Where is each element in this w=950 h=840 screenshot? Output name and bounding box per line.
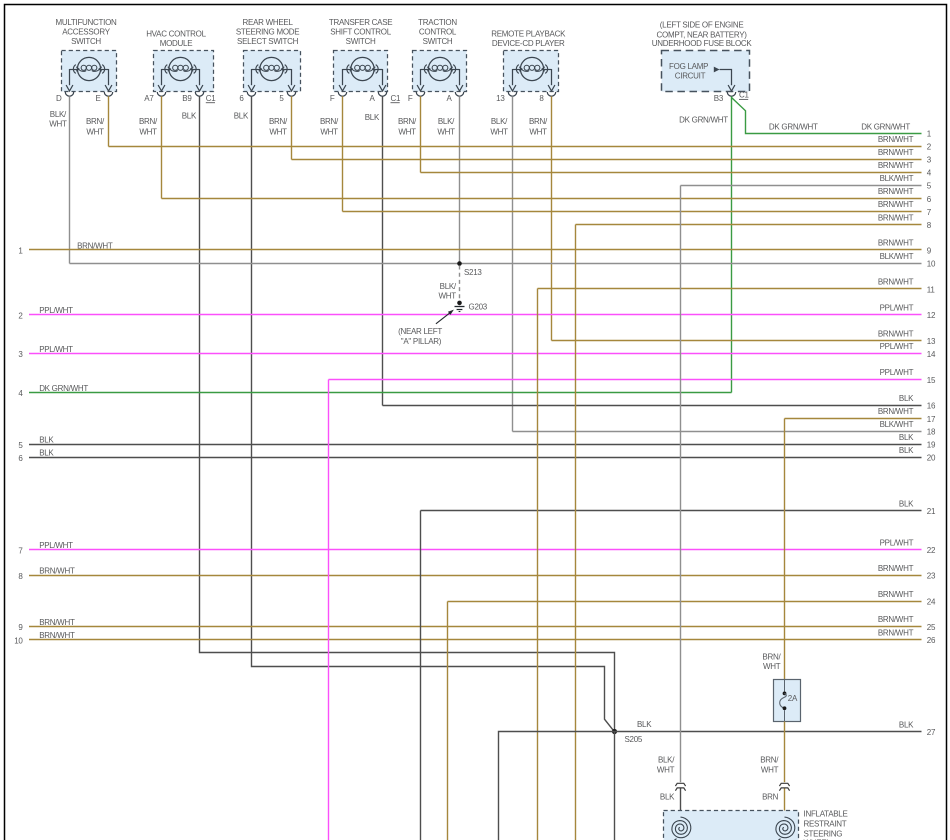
svg-text:BRN/WHT: BRN/WHT: [878, 628, 914, 637]
pin 5 of rear wheel steering mode select switch lamp: [269, 94, 288, 137]
svg-text:PPL/WHT: PPL/WHT: [880, 538, 914, 547]
svg-text:BLK/WHT: BLK/WHT: [880, 174, 914, 183]
wire circuit row 18 BLK/WHT: [513, 420, 936, 437]
svg-text:C1: C1: [739, 91, 749, 100]
transfer case shift control switch lamp: [329, 18, 392, 96]
svg-text:WHT: WHT: [49, 120, 67, 129]
svg-text:21: 21: [927, 507, 936, 516]
svg-text:CIRCUIT: CIRCUIT: [675, 72, 706, 81]
svg-text:E: E: [95, 94, 100, 103]
wire circuit row 27 BLK from S205: [615, 720, 936, 737]
left circuit row 4 DK GRN/WHT: [18, 384, 731, 398]
svg-text:BLK: BLK: [39, 436, 54, 445]
svg-text:BRN: BRN: [762, 792, 779, 801]
svg-text:WHT: WHT: [398, 128, 416, 137]
svg-text:BLK/: BLK/: [440, 282, 457, 291]
pin 8 of remote playback device-CD player lamp: [529, 94, 548, 137]
svg-text:BRN/WHT: BRN/WHT: [878, 161, 914, 170]
svg-text:26: 26: [927, 636, 936, 645]
pin E of multifunction accessory switch lamp: [86, 94, 105, 137]
svg-text:BRN/WHT: BRN/WHT: [878, 148, 914, 157]
svg-text:BRN/WHT: BRN/WHT: [878, 135, 914, 144]
wire pin 5 BRN/WHT down to circuit 3: [291, 96, 293, 159]
svg-text:REAR WHEEL: REAR WHEEL: [243, 18, 294, 27]
svg-text:10: 10: [927, 260, 936, 269]
svg-text:13: 13: [496, 94, 505, 103]
clockspring coil right: [776, 817, 795, 838]
svg-text:ACCESSORY: ACCESSORY: [62, 28, 111, 37]
remote playback device-CD player lamp: [491, 29, 566, 96]
svg-text:14: 14: [927, 350, 936, 359]
svg-text:TRANSFER CASE: TRANSFER CASE: [329, 18, 392, 27]
pin D of multifunction accessory switch lamp: [49, 94, 67, 129]
svg-text:WHT: WHT: [490, 128, 508, 137]
pin A7 of HVAC control module lamp: [139, 94, 158, 137]
wire circuit row 24 BRN/WHT: [448, 590, 936, 607]
svg-text:PPL/WHT: PPL/WHT: [880, 342, 914, 351]
svg-text:BRN/WHT: BRN/WHT: [39, 567, 75, 576]
inline connector left: [657, 756, 686, 791]
svg-text:BRN/WHT: BRN/WHT: [878, 564, 914, 573]
svg-text:BLK: BLK: [899, 394, 914, 403]
svg-text:BRN/: BRN/: [269, 117, 288, 126]
svg-text:BLK/: BLK/: [438, 117, 455, 126]
svg-text:HVAC CONTROL: HVAC CONTROL: [146, 29, 206, 38]
svg-text:BLK: BLK: [660, 792, 675, 801]
svg-text:BRN/WHT: BRN/WHT: [77, 241, 113, 250]
svg-text:WHT: WHT: [657, 765, 675, 774]
svg-text:WHT: WHT: [529, 128, 547, 137]
pin 13 of remote playback device-CD player lamp: [490, 94, 508, 137]
wire circuit row 19 BLK: [18, 433, 936, 450]
wire fuse B3 DK GRN/WHT branch to circuit 1: [732, 98, 922, 134]
svg-text:A7: A7: [144, 94, 154, 103]
svg-text:DEVICE-CD PLAYER: DEVICE-CD PLAYER: [492, 39, 565, 48]
svg-text:BRN/: BRN/: [529, 117, 548, 126]
svg-text:DK GRN/WHT: DK GRN/WHT: [679, 116, 728, 125]
svg-text:BLK/: BLK/: [491, 117, 508, 126]
svg-text:11: 11: [927, 285, 936, 294]
wire circuit row 9 BRN/WHT: [18, 239, 931, 256]
svg-text:D: D: [56, 94, 62, 103]
svg-text:BLK/WHT: BLK/WHT: [880, 252, 914, 261]
svg-text:13: 13: [927, 337, 936, 346]
splice S213: [457, 261, 482, 277]
wire circuit row 15 PPL/WHT: [329, 368, 936, 385]
wire circuit row 7 BRN/WHT: [343, 200, 932, 217]
wire circuit row 4 BRN/WHT: [421, 161, 932, 178]
pin A of transfer case shift control switch lamp: [365, 94, 380, 122]
svg-text:BRN/: BRN/: [398, 117, 417, 126]
svg-text:SELECT SWITCH: SELECT SWITCH: [237, 37, 299, 46]
svg-text:BRN/: BRN/: [86, 117, 105, 126]
svg-text:PPL/WHT: PPL/WHT: [880, 304, 914, 313]
svg-text:BRN/WHT: BRN/WHT: [878, 329, 914, 338]
svg-text:WHT: WHT: [86, 128, 104, 137]
svg-text:23: 23: [927, 572, 936, 581]
svg-text:BLK/WHT: BLK/WHT: [880, 420, 914, 429]
svg-text:BLK: BLK: [899, 446, 914, 455]
underhood fuse block FOG LAMP CIRCUIT: [652, 21, 753, 97]
svg-text:(LEFT SIDE OF ENGINE: (LEFT SIDE OF ENGINE: [660, 21, 744, 30]
ground G203: [455, 301, 488, 312]
svg-text:BRN/WHT: BRN/WHT: [878, 187, 914, 196]
svg-text:WHT: WHT: [437, 128, 455, 137]
svg-text:SHIFT CONTROL: SHIFT CONTROL: [330, 28, 391, 37]
svg-text:DK GRN/WHT: DK GRN/WHT: [861, 122, 910, 131]
wire circuit row 10 BLK/WHT: [70, 252, 936, 269]
svg-text:G203: G203: [469, 302, 488, 311]
wire traction pin F BRN/WHT down to circuit 4: [420, 96, 422, 172]
svg-text:15: 15: [927, 376, 936, 385]
svg-text:PPL/WHT: PPL/WHT: [39, 541, 73, 550]
wire circuit 5 BLK/WHT down to inline connector: [680, 186, 682, 783]
svg-text:BRN/WHT: BRN/WHT: [878, 615, 914, 624]
svg-text:UNDERHOOD FUSE BLOCK: UNDERHOOD FUSE BLOCK: [652, 39, 753, 48]
svg-text:B9: B9: [182, 94, 192, 103]
wire pin E BRN/WHT down to circuit 2: [108, 96, 110, 146]
svg-text:MULTIFUNCTION: MULTIFUNCTION: [55, 18, 117, 27]
splice S205: [612, 729, 643, 744]
inline connector right: [779, 783, 789, 790]
svg-text:BRN/: BRN/: [320, 117, 339, 126]
traction control switch lamp: [413, 18, 467, 96]
svg-text:WHT: WHT: [320, 128, 338, 137]
svg-text:BRN/WHT: BRN/WHT: [878, 278, 914, 287]
wire circuit row 13 BRN/WHT: [552, 329, 936, 346]
rear wheel steering mode select switch lamp: [236, 18, 301, 96]
G203 location note NEAR LEFT A PILLAR: [398, 310, 454, 346]
svg-text:"A" PILLAR): "A" PILLAR): [401, 337, 442, 346]
wire circuit 15 stub down: [328, 380, 330, 840]
wire circuit row 3 BRN/WHT: [292, 148, 932, 165]
wire circuit row 20 BLK: [18, 446, 936, 463]
wire fuse B3 DK GRN/WHT down to left circuit 4: [731, 96, 733, 392]
wire circuit row 17 BRN/WHT: [785, 407, 936, 424]
svg-text:BLK: BLK: [899, 433, 914, 442]
wire S205 branch straight down: [614, 732, 616, 840]
svg-text:BLK: BLK: [899, 500, 914, 509]
svg-text:STEERING MODE: STEERING MODE: [236, 28, 299, 37]
wire circuit 11 stub down: [537, 289, 539, 840]
wire circuit row 6 BRN/WHT: [162, 187, 932, 204]
wire S205 branch left and down: [499, 732, 615, 840]
svg-text:SWITCH: SWITCH: [423, 37, 453, 46]
svg-text:PPL/WHT: PPL/WHT: [39, 306, 73, 315]
wire circuit 17 BRN/WHT down to connector 2A: [762, 419, 784, 680]
wire circuit row 16 BLK: [383, 394, 936, 411]
pin 6 of rear wheel steering mode select switch lamp: [234, 94, 249, 121]
svg-text:(NEAR LEFT: (NEAR LEFT: [398, 327, 442, 336]
svg-text:20: 20: [927, 454, 936, 463]
pin A of traction control switch lamp: [437, 94, 455, 137]
wire circuit row 11 BRN/WHT: [538, 278, 936, 295]
svg-text:BLK: BLK: [365, 113, 380, 122]
wire pin 6 BLK down to splice S205: [252, 96, 614, 731]
svg-text:MODULE: MODULE: [160, 39, 193, 48]
wire transfer case pin F BRN/WHT down to circuit 7: [342, 96, 344, 211]
svg-text:RESTRAINT: RESTRAINT: [804, 819, 847, 828]
svg-text:S213: S213: [464, 268, 482, 277]
wire circuit 24 stub down: [447, 602, 449, 840]
svg-text:BRN/WHT: BRN/WHT: [878, 407, 914, 416]
svg-text:BRN/WHT: BRN/WHT: [878, 590, 914, 599]
svg-text:BLK: BLK: [637, 720, 652, 729]
wire pin 8 BRN/WHT down to circuit 13: [551, 96, 553, 340]
row 1 mid labels DK GRN/WHT: [769, 122, 910, 131]
svg-text:BLK/: BLK/: [658, 756, 675, 765]
svg-text:2A: 2A: [788, 694, 798, 703]
svg-text:WHT: WHT: [439, 292, 457, 301]
wire circuit 8 stub down: [575, 225, 577, 840]
wire BRN into steering wheel module: [762, 789, 784, 818]
wire pin B9 BLK down to splice S205: [200, 96, 615, 731]
wire circuit row 26 BRN/WHT: [14, 628, 936, 645]
wire circuit row 5 BLK/WHT: [681, 174, 932, 191]
wire circuit row 14 PPL/WHT: [18, 342, 936, 359]
svg-text:BRN/: BRN/: [139, 117, 158, 126]
wire pin A7 BRN/WHT down to circuit 6: [161, 96, 163, 198]
connector C1 label of fuse block: [739, 91, 749, 100]
svg-text:BRN/WHT: BRN/WHT: [39, 631, 75, 640]
wire circuit row 8 BRN/WHT: [576, 213, 932, 230]
svg-text:25: 25: [927, 623, 936, 632]
wire S213 to G203 BLK/WHT dashed: [439, 266, 460, 301]
pin F of transfer case shift control switch lamp: [320, 94, 339, 137]
svg-text:27: 27: [927, 728, 936, 737]
svg-text:WHT: WHT: [763, 662, 781, 671]
wire circuit 21 stub down: [420, 511, 422, 840]
svg-text:DK GRN/WHT: DK GRN/WHT: [39, 384, 88, 393]
clockspring coil left: [672, 817, 691, 838]
wire circuit row 12 PPL/WHT: [18, 304, 936, 321]
svg-text:C1: C1: [206, 94, 216, 103]
svg-text:BRN/WHT: BRN/WHT: [39, 618, 75, 627]
HVAC control module lamp: [146, 29, 213, 96]
wire circuit row 22 PPL/WHT: [18, 538, 936, 555]
pin B9 of HVAC control module lamp: [182, 94, 197, 121]
wire BLK into steering wheel module: [660, 789, 681, 818]
connector C1 label of HVAC control module: [206, 94, 216, 103]
svg-text:PPL/WHT: PPL/WHT: [880, 368, 914, 377]
inflatable restraint steering wheel module: [664, 809, 848, 840]
multifunction accessory switch lamp: [55, 18, 117, 96]
svg-text:C1: C1: [391, 94, 401, 103]
svg-text:BLK: BLK: [182, 112, 197, 121]
svg-text:BRN/: BRN/: [762, 652, 781, 661]
svg-text:COMPT, NEAR BATTERY): COMPT, NEAR BATTERY): [657, 30, 748, 39]
svg-text:12: 12: [927, 311, 936, 320]
wire circuit row 1 DK GRN/WHT: [927, 129, 932, 138]
svg-text:18: 18: [927, 428, 936, 437]
svg-text:CONTROL: CONTROL: [419, 28, 457, 37]
svg-text:WHT: WHT: [761, 765, 779, 774]
svg-text:TRACTION: TRACTION: [418, 18, 457, 27]
svg-text:FOG LAMP: FOG LAMP: [669, 62, 708, 71]
svg-text:BLK: BLK: [234, 112, 249, 121]
wire BRN/WHT below 2A: [760, 722, 784, 783]
wire circuit row 21 BLK: [421, 500, 936, 517]
wire circuit row 2 BRN/WHT: [109, 135, 932, 152]
svg-text:22: 22: [927, 546, 936, 555]
wire traction pin A BLK/WHT down to splice S213: [459, 96, 461, 263]
pin F of traction control switch lamp: [398, 94, 417, 137]
svg-text:REMOTE PLAYBACK: REMOTE PLAYBACK: [491, 29, 566, 38]
wire circuit row 23 BRN/WHT: [18, 564, 936, 581]
svg-text:SWITCH: SWITCH: [71, 37, 101, 46]
wire circuit row 25 BRN/WHT: [18, 615, 936, 632]
svg-text:S205: S205: [625, 735, 643, 744]
svg-text:PPL/WHT: PPL/WHT: [39, 345, 73, 354]
svg-text:WHT: WHT: [269, 128, 287, 137]
connector C1 label of transfer case switch: [391, 94, 401, 103]
svg-text:19: 19: [927, 441, 936, 450]
svg-text:BRN/WHT: BRN/WHT: [878, 239, 914, 248]
svg-text:10: 10: [14, 636, 23, 645]
svg-text:SWITCH: SWITCH: [346, 37, 376, 46]
svg-text:BLK/: BLK/: [50, 110, 67, 119]
svg-text:STEERING: STEERING: [804, 829, 843, 838]
svg-text:24: 24: [927, 598, 936, 607]
svg-text:BLK: BLK: [899, 720, 914, 729]
svg-text:WHT: WHT: [139, 128, 157, 137]
wire transfer case pin A BLK down to circuit 16: [382, 96, 384, 405]
svg-text:BRN/: BRN/: [760, 756, 779, 765]
svg-text:INFLATABLE: INFLATABLE: [804, 809, 848, 818]
svg-text:F: F: [408, 94, 413, 103]
svg-text:BRN/WHT: BRN/WHT: [878, 200, 914, 209]
svg-text:BRN/WHT: BRN/WHT: [878, 213, 914, 222]
wire pin D BLK/WHT down to circuit 10: [69, 96, 71, 263]
svg-text:DK GRN/WHT: DK GRN/WHT: [769, 122, 818, 131]
svg-text:17: 17: [927, 415, 936, 424]
wire pin 13 BLK/WHT down to circuit 18: [512, 96, 514, 431]
svg-text:F: F: [330, 94, 335, 103]
svg-text:B3: B3: [714, 94, 724, 103]
inline connector 2A: [774, 680, 801, 722]
svg-text:BLK: BLK: [39, 449, 54, 458]
svg-text:16: 16: [927, 402, 936, 411]
